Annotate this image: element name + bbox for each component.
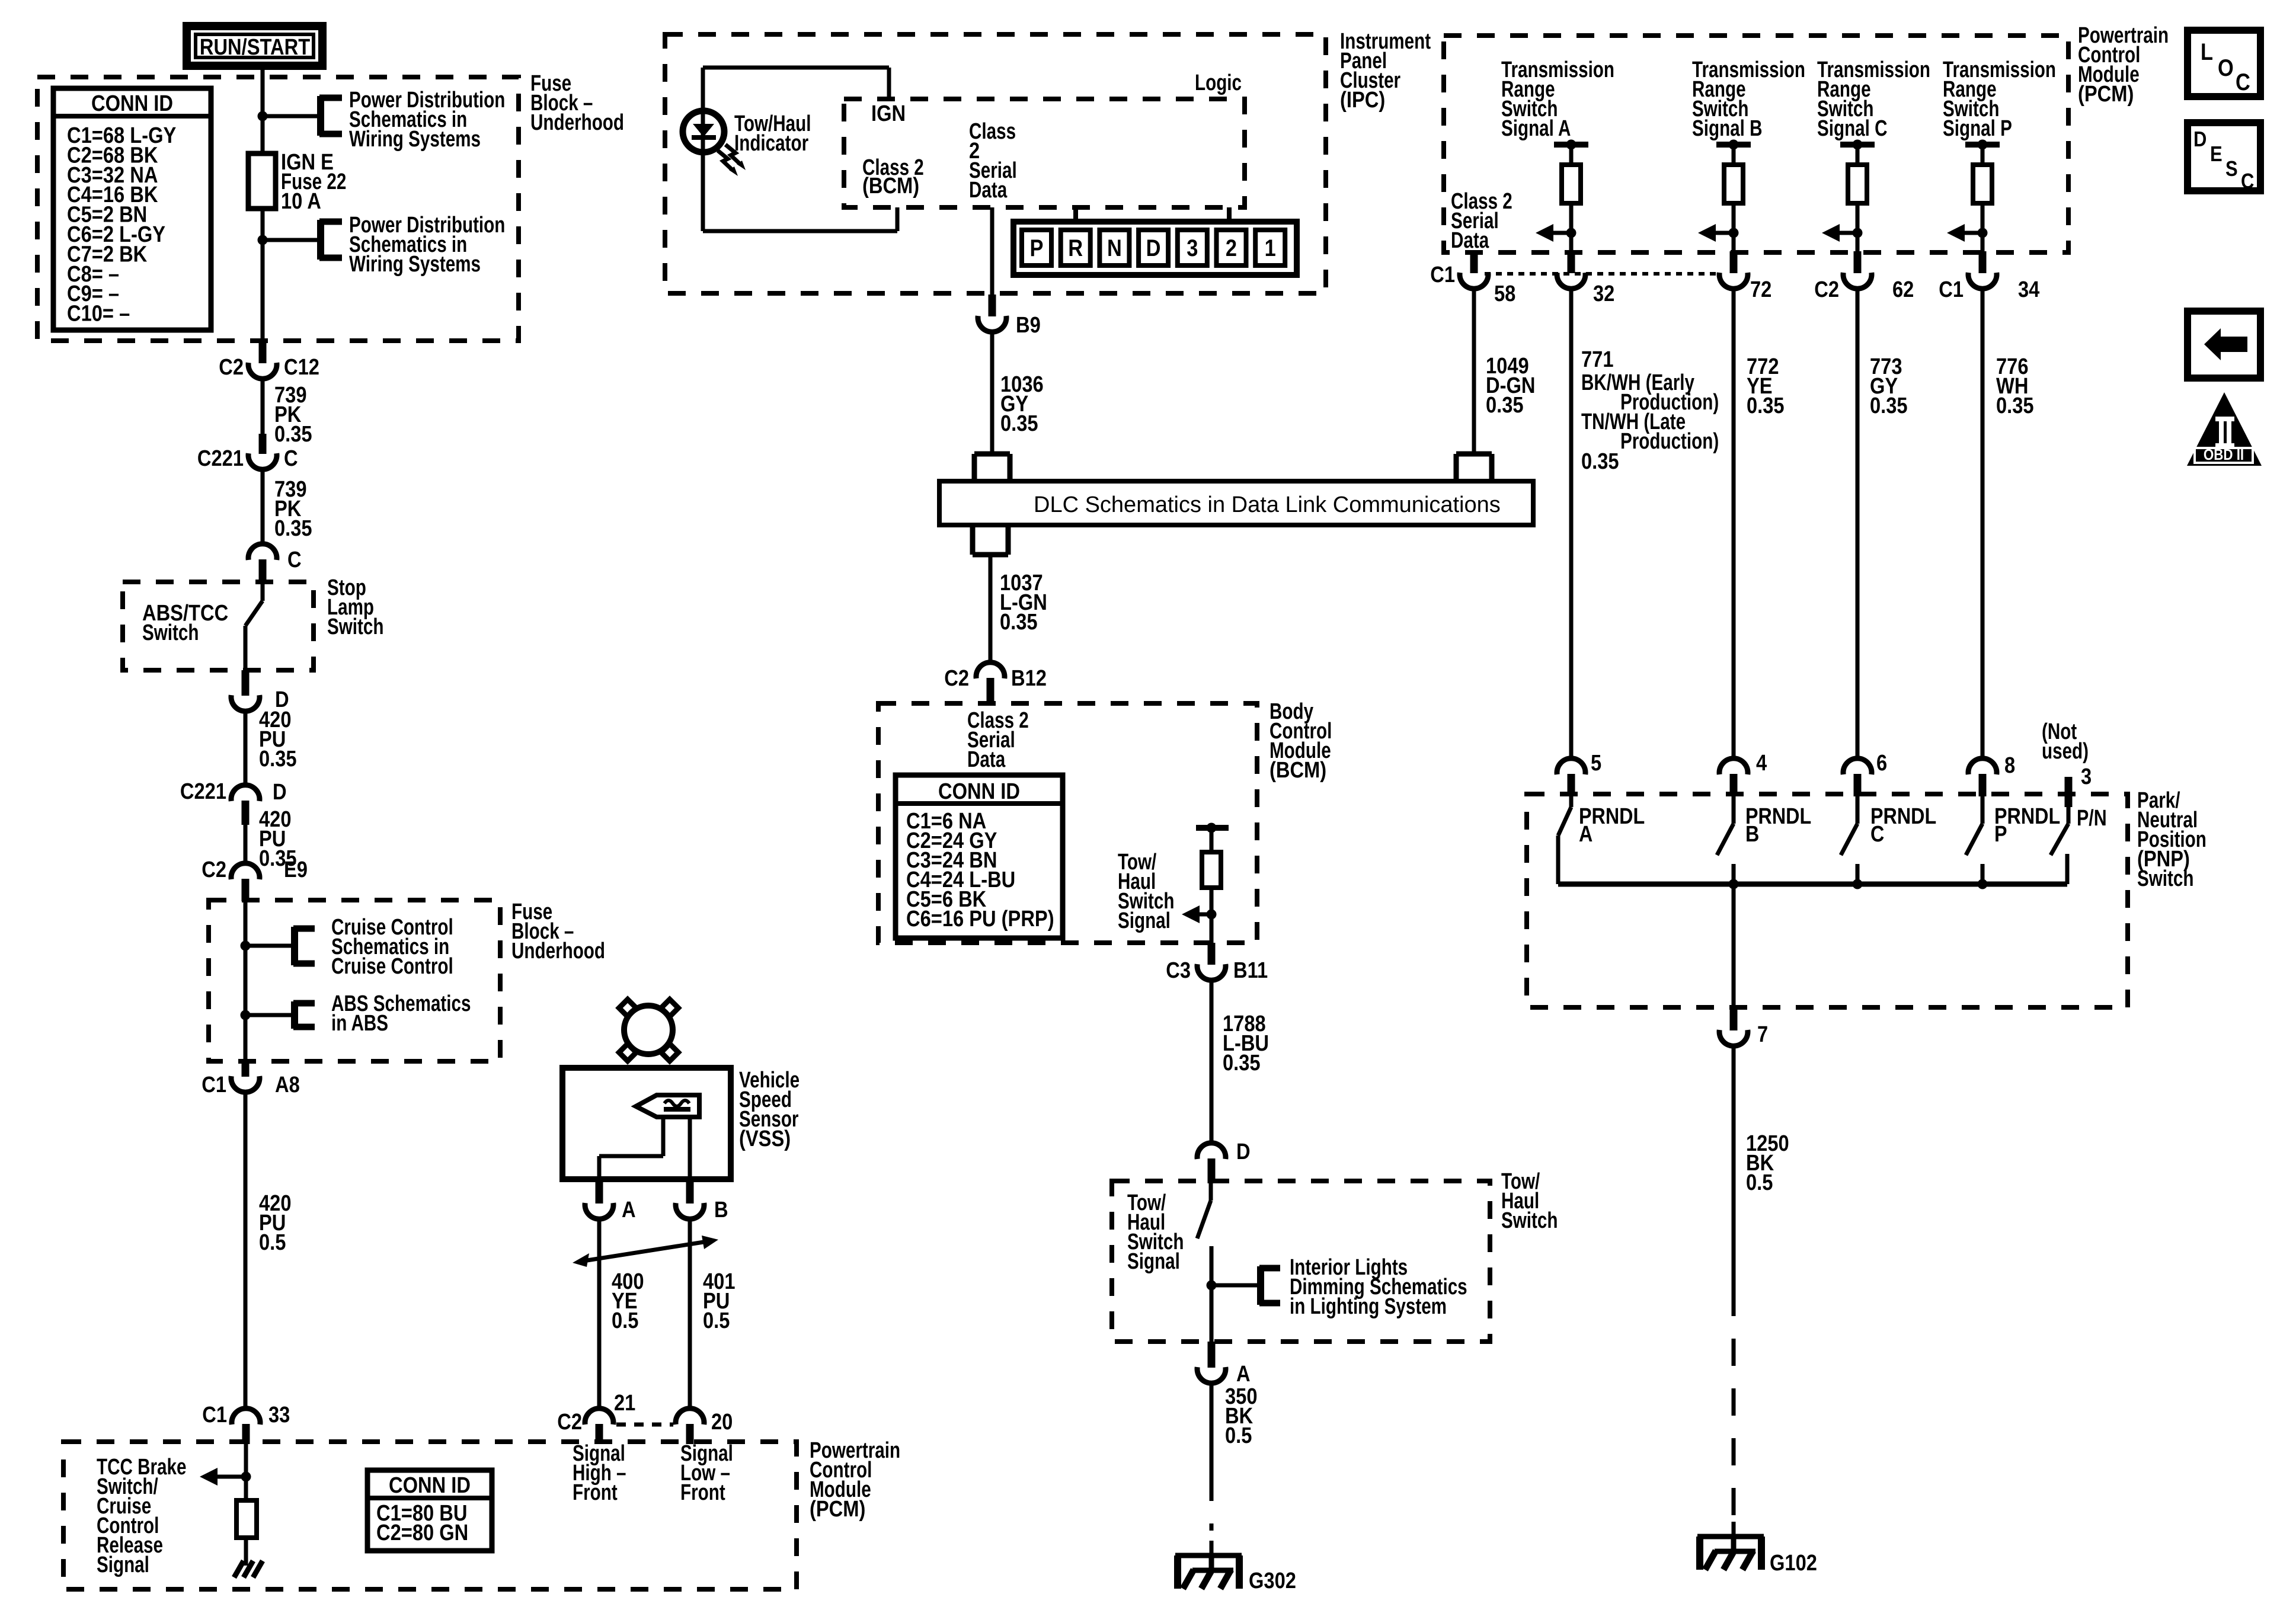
wire label 1036 GY 0.35 (1000, 372, 1044, 436)
wire fuse to lower junction (261, 209, 265, 240)
label 5 (1591, 750, 1601, 776)
node junction arrow Signal P (1978, 228, 1988, 238)
svg-text:Wiring Systems: Wiring Systems (349, 127, 481, 152)
label C2 (219, 354, 244, 380)
wire 771 A (1569, 288, 1574, 760)
svg-text:C10= –: C10= – (67, 300, 130, 326)
body control module box (dashed) (878, 703, 1257, 943)
wire label 420 PU 0.35 upper (259, 707, 297, 772)
svg-text:20: 20 (711, 1409, 733, 1435)
svg-text:Signal P: Signal P (1943, 116, 2012, 141)
CONN ID table (BCM) (896, 775, 1063, 938)
wire 350 BK (1210, 1383, 1214, 1557)
svg-text:72: 72 (1750, 277, 1771, 302)
svg-text:0.35: 0.35 (274, 516, 312, 541)
svg-text:0.35: 0.35 (1870, 393, 1908, 418)
connector C221 D (231, 785, 260, 801)
label C (stop lamp) (287, 547, 302, 572)
tow/haul switch signal arrow BCM (1182, 905, 1211, 923)
powertrain control module box top (dashed) (1444, 36, 2068, 252)
svg-text:34: 34 (2018, 277, 2040, 302)
Logic label (1195, 71, 1242, 95)
node junction T-bar BCM (1207, 823, 1217, 833)
node junction T-bar Signal C (1853, 140, 1863, 150)
Vehicle Speed Sensor label (739, 1068, 800, 1151)
svg-text:E9: E9 (284, 857, 308, 882)
label IGN (871, 101, 906, 126)
label E9 (284, 857, 308, 882)
CONN ID table (fuse block) (53, 88, 211, 330)
connector A (tow/haul) (1197, 1367, 1226, 1383)
svg-text:Front: Front (573, 1480, 618, 1505)
svg-text:C2: C2 (202, 857, 226, 882)
PRNDL P label (1994, 804, 2060, 847)
label Class 2 Serial Data (969, 119, 1017, 203)
svg-text:B9: B9 (1016, 312, 1041, 338)
connector C2 21 (585, 1409, 613, 1425)
Tow/Haul Indicator label (734, 111, 811, 156)
svg-text:A8: A8 (275, 1072, 300, 1097)
label (Not used) (2042, 719, 2089, 764)
wire 401 PU (688, 1219, 692, 1409)
label C1 (33) (202, 1402, 227, 1427)
fuse IGN E Fuse 22 10A (248, 153, 276, 209)
svg-text:Underhood: Underhood (530, 110, 624, 135)
off-page bracket lower (319, 220, 342, 260)
Tow/Haul Switch Signal label BCM (1118, 850, 1174, 933)
connector B (VSS) (676, 1203, 704, 1219)
wire 772 B (1732, 288, 1736, 760)
tow/haul signal T-bar (1196, 828, 1229, 852)
connector C (stop lamp) (248, 544, 277, 560)
svg-text:33: 33 (268, 1402, 290, 1427)
node junction arrow Signal C (1853, 228, 1863, 238)
svg-text:62: 62 (1892, 277, 1914, 302)
svg-text:Switch: Switch (327, 614, 383, 639)
svg-text:C: C (1870, 822, 1884, 847)
svg-text:0.5: 0.5 (259, 1230, 286, 1255)
svg-text:C: C (284, 446, 298, 471)
node junction BCM arrow (1207, 910, 1217, 920)
svg-text:C2: C2 (944, 665, 969, 691)
tow/haul switch box (dashed) (1112, 1181, 1490, 1342)
svg-text:C1: C1 (1939, 277, 1964, 302)
connector 20 (676, 1409, 704, 1425)
wire branch cruise (245, 944, 295, 948)
Power Distribution label 2 (349, 213, 505, 277)
Tow/Haul Switch Signal label inside (1127, 1190, 1184, 1274)
wire 1788 L-BU (1210, 980, 1214, 1143)
svg-text:0.35: 0.35 (1996, 393, 2034, 418)
logic box (dashed) (844, 99, 1245, 207)
CONN ID rows BCM (906, 808, 1054, 932)
label Class 2 Serial Data (PCM) (1451, 189, 1512, 253)
label B9 (1016, 312, 1041, 338)
connector pin Signal P (1968, 273, 1997, 289)
park/neutral position switch box (dashed) (1527, 794, 2128, 1007)
svg-text:Signal: Signal (1127, 1249, 1180, 1274)
connector stub VSS B (686, 1180, 694, 1204)
connector C2 B12 (976, 662, 1005, 678)
node junction bus B (1729, 879, 1739, 889)
connector stub B11 (1208, 943, 1216, 965)
svg-text:C: C (2241, 170, 2254, 194)
wire label 776 WH 0.35 (1996, 354, 2034, 418)
ground G302 (1175, 1555, 1242, 1589)
svg-text:B12: B12 (1011, 665, 1047, 691)
label 7 (1757, 1022, 1768, 1047)
node junction arrow Signal B (1729, 228, 1739, 238)
fuse block underhood box (dashed) (37, 77, 519, 341)
svg-text:Switch: Switch (142, 620, 199, 645)
Fuse Block Underhood label (530, 71, 624, 135)
wire 776 P (1981, 288, 1985, 760)
connector 6 (1843, 758, 1872, 774)
label C2 (62) (1814, 277, 1839, 302)
svg-text:0.35: 0.35 (1223, 1050, 1261, 1076)
svg-text:C: C (287, 547, 302, 572)
connector dotted line C1 (1485, 272, 1721, 276)
svg-text:E: E (2210, 143, 2223, 167)
svg-text:0.5: 0.5 (1225, 1423, 1252, 1448)
svg-text:CONN ID: CONN ID (938, 779, 1020, 804)
svg-text:L: L (2201, 39, 2213, 65)
svg-text:C2: C2 (557, 1409, 582, 1435)
label C (284, 446, 298, 471)
connector dashed line 21-20 (616, 1423, 673, 1427)
RUN/START power feed box (187, 26, 322, 66)
connector stub 8 (1979, 774, 1987, 796)
label B (VSS) (714, 1197, 728, 1222)
powertrain control module box bottom (dashed) (63, 1442, 797, 1589)
connector stub 20 (686, 1424, 694, 1444)
connector C3 B11 (1197, 964, 1226, 980)
PRND cells (1022, 230, 1285, 265)
T-bar Signal C (1840, 145, 1875, 165)
connector stub D (242, 670, 250, 696)
svg-text:6: 6 (1876, 750, 1887, 776)
svg-text:Front: Front (680, 1480, 725, 1505)
connector stub Signal C (1854, 251, 1862, 273)
Transmission Range Switch Signal B label (1692, 57, 1805, 141)
svg-text:C1: C1 (202, 1402, 227, 1427)
svg-text:A: A (1579, 822, 1593, 847)
label C2 (21) (557, 1409, 582, 1435)
wire label 772 YE 0.35 (1747, 354, 1785, 418)
connector stub C221-C (259, 434, 267, 454)
svg-text:(PCM): (PCM) (810, 1496, 865, 1522)
ground TCC (234, 1561, 263, 1577)
svg-text:4: 4 (1756, 750, 1767, 776)
stop lamp switch blade (245, 583, 263, 670)
wire junction to box edge (261, 240, 265, 341)
connector stub Signal B (1730, 251, 1738, 273)
tow/haul switch blade (1197, 1182, 1211, 1285)
wire branch lower (263, 238, 321, 242)
connector stub B9 (989, 295, 996, 316)
svg-text:Signal A: Signal A (1501, 116, 1571, 141)
svg-text:Underhood: Underhood (511, 939, 605, 964)
PRND display box (1013, 222, 1297, 275)
svg-text:(BCM): (BCM) (1269, 757, 1326, 783)
label C3 (1166, 958, 1191, 983)
label G102 (1770, 1550, 1817, 1576)
node junction arrow Signal A (1566, 228, 1576, 238)
svg-text:0.5: 0.5 (703, 1308, 730, 1333)
label 32 (1593, 281, 1614, 306)
resistor TCC (236, 1500, 257, 1538)
svg-text:(BCM): (BCM) (862, 173, 919, 199)
svg-text:C221: C221 (180, 779, 226, 804)
stop lamp switch box (dashed) (123, 582, 314, 670)
Park/Neutral Position label (2137, 788, 2207, 891)
connector B9 (978, 316, 1006, 332)
wire branch upper (263, 114, 321, 119)
label D (C221) (273, 779, 287, 805)
wire class2 serial data (IPC) (990, 207, 994, 295)
label D (tow/haul) (1236, 1139, 1251, 1164)
wire label 773 GY 0.35 (1870, 354, 1908, 418)
T-bar Signal A (1554, 145, 1588, 165)
connector D (tow/haul) (1197, 1143, 1226, 1159)
wire bus output (1732, 884, 1736, 1007)
VSS wiring right (688, 1117, 692, 1180)
label A (tow/haul) (1236, 1361, 1251, 1387)
svg-text:Cruise Control: Cruise Control (331, 954, 453, 979)
wire resistor Signal C (1856, 203, 1860, 252)
resistor BCM (1202, 852, 1221, 888)
svg-text:C221: C221 (197, 446, 244, 471)
svg-text:Signal C: Signal C (1817, 116, 1888, 141)
CONN ID header (91, 91, 173, 116)
connector pin Signal C (1843, 273, 1872, 289)
svg-text:D: D (273, 779, 287, 805)
VSS sensor element (636, 1095, 699, 1117)
svg-text:IGN: IGN (871, 101, 906, 126)
LOC box (2188, 30, 2260, 97)
wire branch interior lights (1211, 1283, 1261, 1288)
wire resistor Signal A (1569, 203, 1574, 252)
wire label 771 BK/WH (1581, 347, 1719, 474)
svg-text:A: A (1236, 1361, 1251, 1387)
VSS box (562, 1068, 731, 1179)
pin 3 stub (2065, 777, 2073, 807)
wire 420 PU upper (244, 711, 248, 785)
svg-text:in Lighting System: in Lighting System (1290, 1294, 1447, 1319)
svg-text:Signal: Signal (1118, 908, 1171, 933)
label 3 (2081, 764, 2092, 789)
wire resistor to junction BCM (1210, 888, 1214, 943)
TCC signal arrow (200, 1468, 246, 1486)
svg-text:0.35: 0.35 (259, 746, 297, 772)
svg-text:C: C (2236, 69, 2250, 95)
svg-text:21: 21 (614, 1390, 635, 1416)
svg-text:Indicator: Indicator (734, 131, 808, 156)
svg-text:OBD II: OBD II (2204, 446, 2244, 463)
svg-text:B: B (1745, 822, 1759, 847)
svg-text:Wiring Systems: Wiring Systems (349, 252, 481, 277)
connector C221 C (248, 453, 277, 469)
label 20 (711, 1409, 733, 1435)
label C1 (34) (1939, 277, 1964, 302)
wire label 1250 BK 0.5 (1746, 1131, 1789, 1195)
svg-text:0.35: 0.35 (1000, 411, 1038, 436)
wire 420 PU lower (244, 825, 248, 863)
svg-text:C2: C2 (219, 354, 244, 380)
node junction lower (258, 235, 268, 245)
label C2 (E9) (202, 857, 226, 882)
off-page crossing arrow (573, 1235, 718, 1267)
P/N switch (2051, 796, 2068, 884)
connector stub E9 (242, 879, 250, 901)
connector stub 4 (1730, 774, 1738, 796)
wire branch abs (245, 1013, 295, 1017)
label B11 (1233, 958, 1268, 983)
Fuse Block Underhood label 2 (511, 900, 605, 964)
wire resistor Signal P (1981, 203, 1985, 252)
svg-text:C1: C1 (202, 1072, 226, 1097)
svg-text:P/N: P/N (2077, 806, 2107, 831)
svg-text:Signal B: Signal B (1692, 116, 1763, 141)
svg-text:5: 5 (1591, 750, 1601, 776)
svg-text:R: R (1068, 235, 1083, 261)
connector stub C221-D (242, 801, 250, 825)
svg-text:2: 2 (1226, 235, 1237, 261)
label Class 2 Serial Data (BCM) (967, 708, 1029, 772)
connector stub C1-58 (1470, 251, 1478, 273)
PNP common bus (1558, 882, 2067, 887)
connector 5 (1557, 758, 1585, 774)
connector stub Signal P (1979, 251, 1987, 273)
svg-text:G302: G302 (1249, 1568, 1296, 1593)
svg-text:C12: C12 (284, 354, 319, 380)
IGN E fuse label (281, 149, 346, 214)
svg-text:C2=80 GN: C2=80 GN (376, 1520, 468, 1545)
Tow/Haul Switch label right (1501, 1169, 1558, 1233)
svg-text:S: S (2225, 158, 2238, 181)
svg-text:B11: B11 (1233, 958, 1268, 983)
wire label 400 YE 0.5 (612, 1269, 644, 1333)
PRNDL P switch (1966, 796, 1982, 884)
connector stub 6 (1854, 774, 1862, 796)
T-bar Signal B (1716, 145, 1751, 165)
label Class 2 (BCM) (862, 155, 924, 199)
label D (275, 687, 289, 712)
svg-text:P: P (1994, 822, 2007, 847)
label 33 (268, 1402, 290, 1427)
svg-text:C2: C2 (1814, 277, 1839, 302)
label 62 (1892, 277, 1914, 302)
svg-text:0.35: 0.35 (1000, 609, 1038, 635)
Transmission Range Switch Signal C label (1817, 57, 1930, 141)
LED circuit loop (703, 68, 897, 231)
svg-text:Logic: Logic (1195, 71, 1242, 95)
CONN ID header BCM (938, 779, 1020, 804)
wire junction to fuse (261, 116, 265, 153)
wire label 420 PU 0.35 lower (259, 806, 297, 871)
connector C2 E9 (231, 863, 260, 879)
svg-text:1: 1 (1265, 235, 1276, 261)
wire resistor Signal B (1732, 203, 1736, 252)
svg-text:A: A (622, 1197, 636, 1222)
svg-text:10 A: 10 A (281, 188, 321, 214)
VSS gear icon (619, 1000, 679, 1061)
Powertrain Control Module (PCM) label bottom (810, 1438, 900, 1522)
svg-text:G102: G102 (1770, 1550, 1817, 1576)
PRNDL C label (1870, 804, 1936, 847)
off-page bracket cruise (293, 927, 315, 965)
connector C1 58 (1460, 273, 1488, 289)
connector stub VSS A (596, 1180, 603, 1204)
svg-text:Switch: Switch (1501, 1208, 1558, 1233)
staple 1049 to DLC (1456, 454, 1492, 481)
CONN ID header PCM (389, 1473, 471, 1498)
svg-text:D: D (2193, 128, 2207, 152)
connector C1 A8 (231, 1076, 260, 1092)
PRNDL B label (1745, 804, 1811, 847)
LED emission arrows (718, 145, 746, 176)
svg-text:O: O (2218, 55, 2234, 81)
off-page bracket abs (293, 1001, 315, 1029)
PRNDL A label (1579, 804, 1645, 847)
VSS wiring left (599, 1117, 663, 1180)
signal arrow Signal B (1698, 224, 1734, 242)
CONN ID table (PCM) (367, 1470, 492, 1551)
svg-text:Data: Data (1451, 228, 1489, 253)
wire label 420 PU 0.5 (259, 1190, 292, 1255)
DLC Schematics label (1034, 492, 1501, 517)
svg-text:C6=16 PU (PRP): C6=16 PU (PRP) (906, 906, 1054, 932)
label C12 (284, 354, 319, 380)
label 34 (2018, 277, 2040, 302)
svg-text:in ABS: in ABS (331, 1011, 388, 1036)
Body Control Module label (1269, 699, 1332, 783)
Instrument Panel Cluster label (1340, 29, 1431, 113)
label C1 (58) (1430, 262, 1455, 287)
LED tow/haul indicator (683, 111, 724, 152)
wire label 739 PK 0.35 upper (274, 382, 312, 447)
svg-text:P: P (1030, 235, 1044, 261)
off-page bracket upper (319, 96, 342, 136)
svg-text:D: D (1146, 235, 1161, 261)
connector C1 33 (232, 1409, 260, 1425)
svg-text:CONN ID: CONN ID (389, 1473, 471, 1498)
svg-text:D: D (1236, 1139, 1251, 1164)
node junction tow/haul (1207, 1281, 1217, 1291)
PRNDL B switch (1717, 796, 1734, 884)
svg-text:3: 3 (2081, 764, 2092, 789)
RUN/START label (200, 34, 311, 60)
PRNDL A switch (1558, 796, 1571, 884)
svg-text:Signal: Signal (97, 1553, 149, 1577)
label A8 (275, 1072, 300, 1097)
Stop Lamp Switch label (327, 575, 383, 639)
node junction T-bar Signal B (1729, 140, 1739, 150)
off-page bracket interior lights (1259, 1266, 1280, 1305)
PRNDL C switch (1841, 796, 1857, 884)
connector stub C-stoplamp (259, 559, 267, 583)
label C2 (B12) (944, 665, 969, 691)
wire label 401 PU 0.5 (703, 1269, 736, 1333)
svg-text:0.35: 0.35 (1747, 393, 1785, 418)
connector stub A (tow/haul) (1208, 1342, 1216, 1368)
svg-text:3: 3 (1187, 235, 1198, 261)
P/N label (2077, 806, 2107, 831)
connector stub D tow/haul (1208, 1158, 1216, 1183)
resistor Signal C (1848, 165, 1867, 203)
svg-text:Switch: Switch (2137, 866, 2193, 891)
label 58 (1494, 281, 1515, 306)
